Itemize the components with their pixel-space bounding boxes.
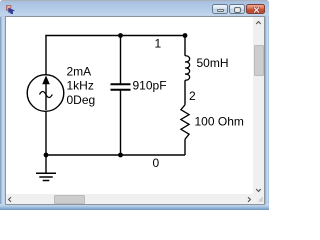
svg-text:1: 1 [155, 37, 162, 51]
wire: capacitor bottom lead [120, 91, 122, 156]
client area border [5, 16, 265, 205]
capacitor C1 bottom plate [111, 89, 131, 91]
current source I1 circle [27, 75, 64, 112]
wire: capacitor top lead [120, 36, 122, 84]
scrollbar corner resize grip [253, 194, 264, 204]
wire: resistor bottom lead [184, 139, 186, 155]
vertical scrollbar down arrow [255, 187, 262, 193]
ground symbol bars [36, 172, 56, 174]
svg-text:0Deg: 0Deg [67, 93, 96, 107]
wire: top horizontal net 1 [45, 35, 185, 37]
capacitor C1 top plate [111, 83, 131, 85]
vertical scrollbar thumb [254, 45, 264, 76]
svg-text:0: 0 [153, 156, 160, 170]
current source I1 arrow shaft [45, 82, 47, 110]
junction: net0/ground [44, 153, 49, 158]
svg-text:2mA: 2mA [67, 64, 92, 78]
svg-text:2: 2 [189, 89, 196, 103]
schematic canvas [0, 0, 269, 210]
caption button: minimize [212, 4, 228, 14]
inductor L1 coil [185, 56, 190, 80]
caption button: close [246, 4, 265, 14]
caption button: maximize [229, 4, 245, 14]
wire: inductor top lead [184, 36, 186, 56]
wire: node 2 segment between L1 and R1 [184, 80, 186, 105]
wire: bottom horizontal net 0 [46, 154, 185, 156]
wire: left branch upper (source top lead) [45, 36, 47, 76]
current source I1 arrowhead [42, 76, 50, 85]
junction: net1/inductor [183, 33, 188, 38]
horizontal scrollbar track [6, 194, 253, 204]
wire: left branch lower (source bottom lead) [45, 111, 47, 155]
vertical scrollbar up arrow [255, 20, 262, 26]
vertical scrollbar track [253, 17, 264, 194]
window frame: title bar [0, 0, 269, 17]
horizontal scrollbar right arrow [246, 196, 252, 203]
svg-text:910pF: 910pF [133, 79, 167, 93]
svg-text:100 Ohm: 100 Ohm [195, 115, 244, 129]
window frame: bottom border [0, 204, 269, 210]
svg-text:50mH: 50mH [197, 56, 229, 70]
horizontal scrollbar thumb [54, 195, 85, 204]
svg-text:1kHz: 1kHz [67, 79, 94, 93]
window frame: left border [0, 17, 5, 210]
junction: net0/capacitor [118, 153, 123, 158]
title bar app icon [6, 5, 15, 14]
horizontal scrollbar left arrow [7, 196, 13, 203]
window frame: right border [264, 17, 269, 210]
ground stub wire [45, 155, 47, 173]
junction: net1/capacitor [118, 33, 123, 38]
current source I1 sine symbol [40, 92, 53, 98]
resistor R1 zigzag [181, 105, 189, 139]
